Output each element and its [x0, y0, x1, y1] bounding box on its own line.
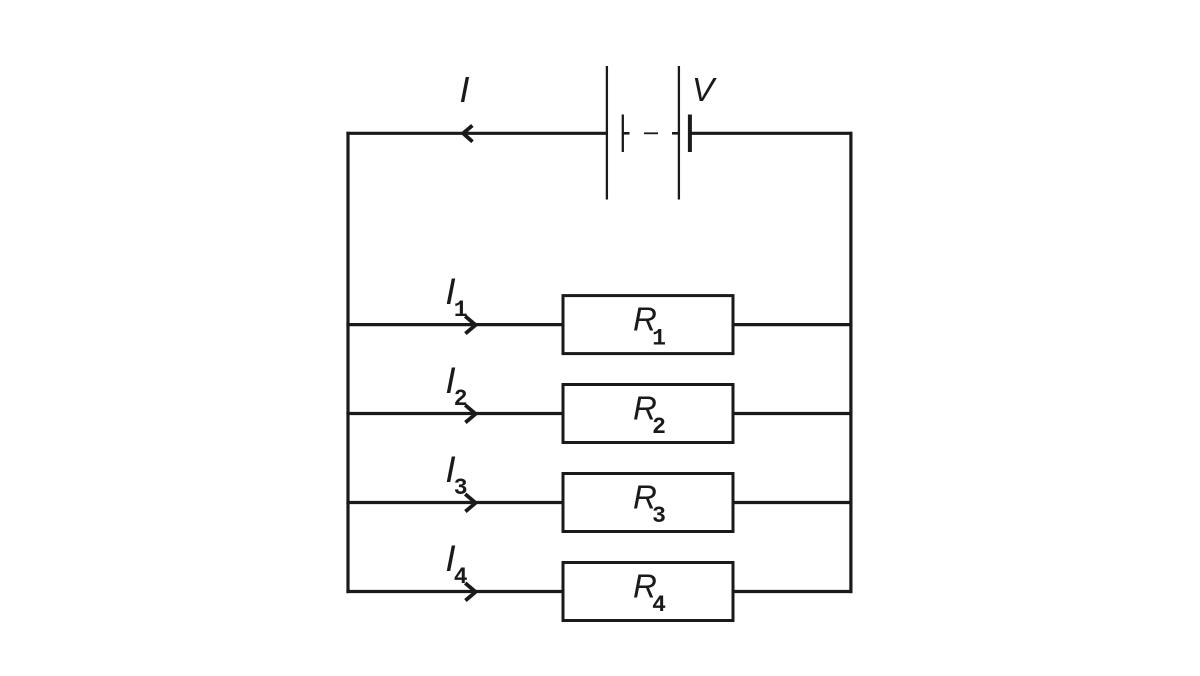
wire left rail	[346, 132, 349, 593]
resistor R2 box	[563, 385, 733, 443]
battery B1 long plate right	[678, 66, 680, 200]
arrow current I3 (points right)	[465, 494, 475, 511]
wire row2 right	[733, 412, 853, 415]
wire row1 left	[346, 323, 563, 326]
wire row4 left	[346, 590, 563, 593]
battery B1 short thick plate right	[688, 115, 692, 153]
wire row3 left	[346, 501, 563, 504]
svg-text:I: I	[459, 69, 469, 110]
wire right rail	[849, 132, 852, 593]
resistor R4 box	[563, 563, 733, 621]
arrow current I (points left)	[463, 126, 472, 142]
wire top-left segment	[346, 132, 607, 135]
svg-text:1: 1	[454, 297, 468, 323]
resistor R1 box	[563, 296, 733, 354]
wire row1 right	[733, 323, 853, 326]
battery B1 stub left	[623, 132, 630, 135]
svg-text:4: 4	[652, 592, 666, 618]
svg-text:1: 1	[652, 325, 666, 351]
battery B1 dash (cells omitted)	[644, 132, 658, 134]
svg-text:2: 2	[652, 414, 666, 440]
wire row4 right	[733, 590, 853, 593]
resistor R3 box	[563, 474, 733, 532]
battery B1 short plate left	[622, 115, 624, 153]
svg-text:2: 2	[454, 386, 468, 412]
svg-text:3: 3	[652, 503, 666, 529]
wire row2 left	[346, 412, 563, 415]
arrow current I4 (points right)	[465, 583, 475, 600]
wire row3 right	[733, 501, 853, 504]
arrow current I1 (points right)	[465, 316, 475, 333]
svg-text:4: 4	[454, 564, 468, 590]
battery B1	[607, 66, 690, 200]
battery B1 stub right	[672, 132, 679, 135]
svg-text:V: V	[692, 72, 717, 109]
arrow current I2 (points right)	[465, 405, 475, 422]
svg-text:3: 3	[454, 475, 468, 501]
wire top-right segment	[690, 132, 853, 135]
battery B1 long plate left	[606, 66, 608, 200]
